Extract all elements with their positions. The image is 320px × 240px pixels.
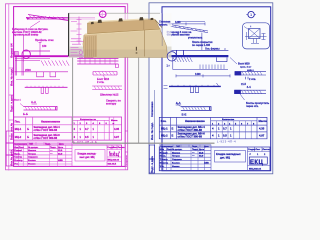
- overlay top edge: [68, 12, 160, 14]
- svg-text:А-А: А-А: [176, 101, 181, 105]
- wall joint seam: [143, 21, 146, 57]
- svg-text:Лист: Лист: [256, 149, 261, 151]
- svg-text:Б-Б: Б-Б: [23, 112, 28, 116]
- blue margin stamp boxes: [149, 145, 154, 173]
- svg-text:Количество на: Количество на: [80, 119, 97, 121]
- vertical dim line: [39, 42, 42, 57]
- overlay lower shadow tint: [69, 50, 168, 58]
- svg-text:Листов: Листов: [118, 147, 126, 149]
- hatch zigzag under beam: [41, 60, 69, 65]
- assembly A leader: [103, 75, 105, 78]
- svg-text:Утв.: Утв.: [160, 166, 165, 168]
- dim line: [167, 22, 205, 25]
- svg-text:Подп.: Подп.: [192, 146, 198, 148]
- svg-text:Н.контр: Н.контр: [14, 160, 23, 162]
- svg-text:Петров: Петров: [28, 153, 37, 155]
- svg-text:Швеллер №12: Швеллер №12: [100, 93, 119, 97]
- svg-text:МЦ-1: МЦ-1: [15, 127, 22, 131]
- svg-text:ст3пс ГОСТ 380-88: ст3пс ГОСТ 380-88: [178, 128, 203, 132]
- svg-text:контуру: контуру: [106, 103, 117, 106]
- vertical thin line: [22, 35, 24, 62]
- dim line lower: [176, 74, 230, 77]
- svg-text:4.97: 4.97: [259, 133, 265, 137]
- svg-text:Фомин: Фомин: [172, 165, 180, 168]
- svg-text:4.35: 4.35: [259, 127, 265, 131]
- sub-beam lines: [15, 59, 50, 61]
- svg-text:Инв. № подл.: Инв. № подл.: [9, 68, 13, 86]
- level marks left: [164, 86, 168, 89]
- bolts above beam: [177, 51, 184, 56]
- svg-text:Наименование: Наименование: [41, 119, 61, 123]
- leader diagonal to text: [30, 21, 40, 28]
- svg-text:L-923-4П-4: L-923-4П-4: [217, 140, 236, 144]
- blue detail box: [243, 23, 270, 49]
- bolt assembly 1: [235, 72, 266, 75]
- mid ticks: [80, 59, 115, 65]
- gray connector horizontal line: [73, 142, 215, 144]
- blue inner frame: [162, 7, 271, 171]
- svg-text:Профиль стен: Профиль стен: [35, 38, 54, 42]
- svg-text:Согласовано: Согласовано: [160, 146, 174, 148]
- beam bar 2: [169, 85, 221, 87]
- thick beam bar: [169, 55, 229, 57]
- blue frame showing through tan: [161, 27, 163, 46]
- svg-text:ЕКЦ-923-04: ЕКЦ-923-04: [249, 167, 262, 170]
- svg-text:Сидоров: Сидоров: [28, 157, 38, 159]
- svg-text:Поз.: Поз.: [15, 119, 21, 123]
- diagonal slope: [171, 25, 209, 33]
- overlay white base: [68, 13, 171, 57]
- svg-text:прив. 2 шт: прив. 2 шт: [240, 66, 252, 68]
- blue sheet paper: [149, 3, 273, 174]
- svg-text:Копировал: Копировал: [126, 154, 128, 167]
- hanging posts: [41, 87, 48, 93]
- mid lines right: [77, 59, 118, 65]
- svg-text:МЦ-2: МЦ-2: [15, 135, 22, 139]
- rail line with ticks: [25, 86, 68, 88]
- magenta left margin line: [8, 4, 10, 171]
- svg-text:Наименование: Наименование: [185, 119, 205, 123]
- svg-text:утеплитель: утеплитель: [188, 37, 203, 40]
- wall anchor block: [14, 52, 19, 57]
- svg-text:А-А: А-А: [31, 100, 36, 104]
- svg-text:0.5: 0.5: [85, 135, 89, 139]
- svg-text:Б: Б: [172, 133, 174, 137]
- blue parts table: [159, 117, 267, 138]
- overlay ground shadow band: [69, 47, 172, 58]
- svg-text:Фомин: Фомин: [28, 163, 36, 166]
- wall center stub: [135, 47, 137, 51]
- lower rail line with hanging posts: [15, 71, 69, 73]
- svg-text:ных дет. МЦ: ных дет. МЦ: [80, 156, 95, 159]
- magenta margin rotated labels: [9, 43, 13, 166]
- bolt assembly 2: [235, 90, 267, 93]
- svg-text:Б: Б: [172, 127, 174, 131]
- svg-text:№ докум.: № докум.: [28, 146, 39, 149]
- svg-text:Изм: Изм: [160, 149, 165, 151]
- svg-text:1200: 1200: [175, 21, 181, 24]
- svg-text:Б: Б: [27, 127, 29, 131]
- blue node circle on beam (over overlay band): [167, 52, 176, 61]
- right hook: [116, 64, 119, 68]
- channel detail bars: [24, 106, 58, 111]
- hanging posts: [191, 87, 199, 93]
- magenta sheet paper: [6, 4, 128, 170]
- svg-text:0.7: 0.7: [85, 127, 89, 131]
- svg-text:Ось фермы: Ось фермы: [205, 47, 220, 50]
- ledge line: [23, 50, 50, 52]
- svg-text:Разраб: Разраб: [160, 151, 168, 154]
- svg-text:Иванов: Иванов: [28, 150, 37, 152]
- svg-text:Б-Б: Б-Б: [182, 113, 187, 117]
- svg-text:Масса: Масса: [259, 119, 268, 123]
- coping right edge: [155, 20, 162, 28]
- svg-text:ГИП: ГИП: [29, 144, 34, 146]
- main thick beam line: [15, 55, 96, 57]
- svg-text:ЕКЦ: ЕКЦ: [250, 160, 263, 166]
- roof left arrow ticks: [29, 16, 65, 20]
- svg-text:1 г: 1 г: [167, 65, 170, 68]
- svg-text:Листов: Листов: [263, 149, 271, 151]
- magenta node bubble (over overlay): [99, 11, 106, 19]
- svg-text:Н.контр: Н.контр: [160, 163, 169, 165]
- vertical line: [201, 33, 203, 51]
- svg-text:дет. МЦ: дет. МЦ: [220, 156, 230, 160]
- svg-text:4-4: 4-4: [247, 85, 251, 89]
- thin ledge: [170, 49, 228, 51]
- svg-text:Пров.: Пров.: [14, 153, 21, 155]
- svg-text:Козлов: Козлов: [28, 160, 36, 162]
- tan mid sliver: [85, 29, 161, 34]
- tan wall end face: [83, 34, 97, 57]
- magenta right margin strip: [125, 4, 128, 170]
- tan coping top face: [88, 18, 155, 23]
- svg-text:Т.контр: Т.контр: [160, 159, 168, 161]
- magenta margin tick boxes bottom-left: [9, 68, 14, 150]
- svg-text:АБВ: АБВ: [204, 162, 209, 165]
- magenta margin stamp boxes: [6, 131, 13, 166]
- svg-text:Б: Б: [27, 135, 29, 139]
- svg-text:МЦ-1: МЦ-1: [161, 127, 168, 131]
- svg-text:0.5: 0.5: [223, 133, 227, 137]
- svg-text:Лист: Лист: [19, 147, 25, 149]
- svg-text:ГИП: ГИП: [176, 146, 181, 148]
- svg-text:Сидоров: Сидоров: [172, 159, 182, 161]
- svg-text:ЕКЦ: ЕКЦ: [109, 152, 119, 157]
- svg-text:Кладка закладных: Кладка закладных: [216, 152, 241, 156]
- svg-text:Козлов: Козлов: [172, 163, 180, 165]
- assembly B bar: [92, 86, 122, 90]
- roof double line: [26, 17, 95, 19]
- svg-text:1: 1: [250, 13, 252, 17]
- magenta title block: [14, 142, 122, 166]
- svg-text:0.7: 0.7: [223, 127, 227, 131]
- svg-text:№ докум.: № докум.: [172, 148, 183, 151]
- tan wall hatched end: [86, 36, 96, 57]
- svg-text:150: 150: [42, 44, 47, 48]
- svg-text:ст3пс ГОСТ 380-88: ст3пс ГОСТ 380-88: [34, 136, 58, 140]
- tan upper coping band: [88, 20, 160, 34]
- tick row: [200, 65, 224, 70]
- svg-text:Согласовано: Согласовано: [14, 144, 28, 146]
- posts right: [217, 57, 227, 61]
- svg-text:Подп. и дата: Подп. и дата: [150, 156, 154, 173]
- blue margin line: [154, 90, 156, 174]
- blue small texts: [167, 21, 270, 117]
- overlay left border: [68, 13, 70, 56]
- svg-text:Петров: Петров: [172, 156, 181, 158]
- leader to bolt text: [230, 58, 237, 65]
- svg-text:Согласовано: Согласовано: [151, 101, 154, 117]
- svg-text:2 отв.: 2 отв.: [249, 78, 256, 81]
- magenta top drawing: [14, 15, 122, 111]
- svg-text:Подп.: Подп.: [45, 144, 51, 146]
- svg-text:кг: кг: [113, 123, 115, 125]
- coping clamps: [91, 17, 154, 24]
- svg-text:4.35: 4.35: [114, 127, 120, 131]
- blue node bubble: [246, 11, 256, 17]
- tan lower wall band: [83, 30, 168, 58]
- magenta parts table: [14, 117, 122, 140]
- 2 отв ticks: [246, 77, 249, 80]
- svg-text:Количество: Количество: [222, 119, 235, 121]
- channel detail: [181, 106, 211, 111]
- svg-text:АНБ-1: АНБ-1: [247, 69, 254, 72]
- svg-text:2500: 2500: [25, 68, 31, 72]
- svg-text:Подп.: Подп.: [50, 147, 57, 149]
- svg-text:Разраб: Разраб: [14, 149, 22, 152]
- svg-text:АБВ: АБВ: [58, 159, 63, 162]
- blue sheet edge above tan (over overlay): [148, 13, 150, 19]
- roof slope diagonal: [28, 15, 68, 21]
- svg-text:ЕКЦ-923-04: ЕКЦ-923-04: [108, 158, 120, 161]
- svg-text:Инв.№ дубл.: Инв.№ дубл.: [9, 149, 13, 166]
- svg-text:панель: панель: [159, 24, 168, 27]
- svg-text:Взам. инв.№: Взам. инв.№: [9, 123, 13, 140]
- assembly A bars: [93, 72, 117, 76]
- svg-text:Дата: Дата: [58, 147, 64, 149]
- blue wall panel text over overlay: [159, 21, 171, 27]
- svg-text:Подп. и дата: Подп. и дата: [9, 95, 13, 112]
- svg-text:МЦ-2: МЦ-2: [161, 133, 168, 137]
- svg-text:кровельный ковер: кровельный ковер: [14, 33, 39, 37]
- svg-text:Утв.: Утв.: [14, 164, 19, 166]
- blue title block: [159, 145, 270, 171]
- svg-text:Поз.: Поз.: [161, 119, 167, 123]
- svg-text:Формат А4: Формат А4: [9, 43, 13, 58]
- blue top drawing: [164, 22, 267, 112]
- svg-text:ст3пс ГОСТ 380-88: ст3пс ГОСТ 380-88: [34, 128, 58, 132]
- magenta small texts: [12, 27, 121, 116]
- gray connector vertical line left: [72, 58, 74, 143]
- svg-text:ст3пс ГОСТ 380-88: ст3пс ГОСТ 380-88: [178, 135, 203, 139]
- A-A underline: [32, 103, 38, 105]
- svg-text:Узел 1: Узел 1: [14, 100, 22, 102]
- A-A underline: [176, 104, 182, 106]
- svg-text:2 отв.: 2 отв.: [97, 80, 105, 84]
- blue margin rotated labels: [150, 101, 154, 173]
- svg-text:Дата: Дата: [199, 149, 205, 151]
- svg-text:через отв.: через отв.: [246, 105, 259, 108]
- svg-text:1400: 1400: [195, 73, 201, 76]
- magenta inner frame: [14, 7, 126, 167]
- svg-text:Т.контр: Т.контр: [14, 157, 22, 159]
- magenta show-through marks on overlay: [71, 17, 84, 56]
- svg-text:Пров.: Пров.: [160, 156, 167, 158]
- svg-text:Подп.: Подп.: [192, 149, 199, 151]
- svg-text:4.97: 4.97: [114, 135, 120, 139]
- svg-text:Инв. № подл.: Инв. № подл.: [150, 122, 154, 140]
- svg-text:Болт М20: Болт М20: [238, 63, 250, 66]
- left posts: [15, 57, 23, 76]
- svg-text:Иванов: Иванов: [172, 152, 181, 154]
- magenta node circle on beam (over overlay band): [22, 50, 30, 58]
- channel leader: [20, 104, 24, 107]
- blue frame above tan (over overlay): [161, 13, 163, 26]
- svg-text:923-04.Б: 923-04.Б: [108, 163, 117, 166]
- gray connector vertical line right: [138, 58, 140, 143]
- diag hatch under beam: [173, 57, 192, 62]
